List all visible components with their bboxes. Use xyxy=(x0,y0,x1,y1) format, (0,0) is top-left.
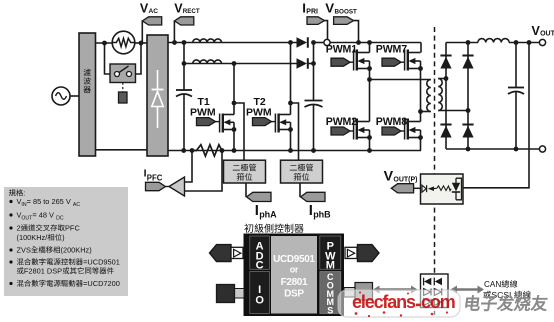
svg-text:PFC: PFC xyxy=(65,224,80,233)
MOSFET M7 (PWM7) xyxy=(405,43,423,71)
transformer primary winding xyxy=(427,80,431,112)
svg-text:phB: phB xyxy=(313,209,331,219)
wire filter to thermistor node xyxy=(96,42,114,44)
I_PFC label xyxy=(144,167,163,182)
IO connector stub xyxy=(235,289,245,299)
PWM8 label xyxy=(376,116,407,128)
ADC connector box xyxy=(231,247,243,258)
I_PRI tag xyxy=(307,17,325,25)
PFC inductor L2 xyxy=(193,60,222,64)
wire filter to bridge bottom xyxy=(96,149,148,151)
MOSFET T1 xyxy=(220,114,237,133)
M2 gate tag xyxy=(331,127,354,135)
MOSFET M2 (PWM2) xyxy=(354,119,372,140)
junction M1 drain xyxy=(367,40,372,45)
PWM output arrow xyxy=(358,245,380,262)
bridge rectifier BR1 xyxy=(147,35,168,156)
op-amp U2 xyxy=(169,177,185,196)
COMMS connector stub xyxy=(344,288,355,298)
T1 label xyxy=(190,96,216,119)
I_PRI node circle xyxy=(324,39,330,45)
svg-text:OUT: OUT xyxy=(540,31,554,38)
svg-text:S: S xyxy=(327,305,333,315)
I_phB label xyxy=(309,203,331,219)
wire source to filter xyxy=(70,95,79,97)
svg-text:PWM2: PWM2 xyxy=(326,116,357,128)
V_OUT terminal - xyxy=(539,146,545,152)
I_PRI label xyxy=(302,1,318,16)
T1 clamp feed wire xyxy=(234,103,244,161)
T2 drain wire xyxy=(288,40,293,114)
M8 gate tag xyxy=(382,127,405,135)
wire D2 to bus xyxy=(308,63,314,65)
IO block xyxy=(250,272,270,314)
PWM1 label xyxy=(326,44,357,56)
M1-M2 node wire xyxy=(367,69,372,122)
svg-text:C: C xyxy=(256,260,264,272)
V_RECT label xyxy=(174,1,200,15)
V_OUT label xyxy=(532,24,554,38)
T1 drain wire xyxy=(232,61,237,114)
rectifier right leg wire xyxy=(466,40,471,151)
COMMS connector box xyxy=(355,283,373,301)
output capacitor C3 xyxy=(508,43,524,150)
controller block U1 xyxy=(244,234,345,317)
svg-text:F2801: F2801 xyxy=(281,277,308,288)
svg-text:PWM: PWM xyxy=(190,107,216,119)
junction Rs left xyxy=(190,148,195,153)
svg-text:PRI: PRI xyxy=(306,8,318,15)
boost diode D2 xyxy=(297,58,308,69)
svg-text:phA: phA xyxy=(259,209,277,219)
svg-text:PWM8: PWM8 xyxy=(376,116,407,128)
CAN opto box U4 xyxy=(421,274,449,308)
relay actuation dashed link xyxy=(122,83,124,93)
svg-text:M: M xyxy=(326,260,335,272)
svg-text:DC: DC xyxy=(56,216,64,222)
feedback opto box U3 xyxy=(421,174,464,204)
inrush thermistor RT1 xyxy=(112,31,135,54)
transformer secondary winding xyxy=(438,79,442,111)
rectifier diode D6 xyxy=(462,125,473,138)
rectifier left leg wire xyxy=(445,43,447,150)
primary side controller label (初級側控制器) xyxy=(244,224,303,233)
svg-text:RECT: RECT xyxy=(183,8,200,15)
secondary bottom wire xyxy=(438,108,470,113)
svg-text:com: com xyxy=(421,292,455,312)
relay wire right xyxy=(136,43,142,74)
rectifier diode D3 xyxy=(440,56,451,69)
svg-text:BOOST: BOOST xyxy=(335,8,358,15)
junction Rs right xyxy=(220,148,225,153)
CAN bus label xyxy=(484,280,517,289)
V_OUT(P) tag xyxy=(391,184,420,193)
wire thermistor to bridge xyxy=(135,42,147,44)
T1 gate PWM tag xyxy=(197,118,220,126)
svg-text:PWM: PWM xyxy=(246,107,272,119)
ADC input arrow xyxy=(210,245,232,262)
MOSFET M1 (PWM1) xyxy=(354,43,372,71)
junction C1 bottom xyxy=(181,148,186,153)
clamp2 output wire xyxy=(299,183,301,197)
svg-text:= 48 V: = 48 V xyxy=(32,211,54,220)
wire bus to Ipri node xyxy=(314,42,325,44)
T2 gate PWM tag xyxy=(253,118,276,126)
V_BOOST label xyxy=(325,1,357,16)
CAN opto row3 diodes xyxy=(424,299,442,306)
MOSFET M8 (PWM8) xyxy=(405,119,423,140)
rectifier diode D4 xyxy=(462,56,473,69)
svg-text:=UCD9501: =UCD9501 xyxy=(83,258,120,267)
svg-text:OUT(P): OUT(P) xyxy=(393,176,417,183)
svg-text:V: V xyxy=(325,1,334,16)
M7 gate tag xyxy=(382,58,405,66)
output inductor L3 xyxy=(478,39,509,43)
boost rail xyxy=(330,42,421,44)
svg-text:elecfans: elecfans xyxy=(352,292,416,312)
output top rail xyxy=(446,42,540,44)
I_phB tag xyxy=(301,192,326,201)
relay wire left xyxy=(105,43,111,74)
M2 source wire xyxy=(367,138,372,153)
I_phA label xyxy=(255,203,277,219)
svg-text:=UCD7200: =UCD7200 xyxy=(83,279,120,288)
junction L2 branch xyxy=(182,61,187,66)
M7-M8 node wire xyxy=(418,69,423,122)
DSP block UCD9501/F2801 xyxy=(271,236,317,314)
svg-text:DSP: DSP xyxy=(284,289,304,300)
svg-text:UCD9501: UCD9501 xyxy=(273,254,315,265)
watermark background xyxy=(338,290,460,317)
bulk capacitor C1 xyxy=(176,64,192,151)
output bottom rail xyxy=(446,147,540,152)
PFC inductor L1 xyxy=(193,39,222,43)
PWM block xyxy=(320,236,341,272)
T2 label xyxy=(246,96,272,119)
svg-text:O: O xyxy=(255,294,264,306)
boost diode D1 xyxy=(297,37,308,48)
CAN opto row1 diodes xyxy=(424,278,442,286)
V_AC label xyxy=(140,1,158,15)
MOSFET T2 xyxy=(275,114,293,133)
I_phA tag xyxy=(247,192,272,201)
COMMS block xyxy=(320,272,341,316)
V_AC tag xyxy=(142,17,161,43)
junction C3 top xyxy=(514,40,519,45)
isolation dashed line xyxy=(434,27,436,315)
PWM connector box xyxy=(345,247,357,258)
secondary top wire xyxy=(438,76,448,81)
V_BOOST tag xyxy=(334,17,354,25)
current sense resistor R_s xyxy=(192,145,222,156)
op-amp input wire + xyxy=(185,151,193,183)
svg-text:F2801 DSP: F2801 DSP xyxy=(24,267,62,276)
primary node wire xyxy=(370,79,431,81)
relay coil box xyxy=(119,92,128,103)
EMI filter box (濾波器) xyxy=(79,33,96,156)
AC source V1 xyxy=(52,87,70,105)
diode clamp box 1 (二極管箝位) xyxy=(224,160,266,183)
svg-text:or: or xyxy=(290,265,299,275)
boost capacitor C2 xyxy=(305,101,323,153)
T2 clamp feed wire xyxy=(291,103,299,161)
svg-text:AC: AC xyxy=(149,8,159,15)
svg-text:PWM7: PWM7 xyxy=(376,44,407,56)
svg-text:): ) xyxy=(62,233,64,242)
watermark elecfans.com xyxy=(352,292,455,318)
zener diode Z1 xyxy=(452,178,462,200)
CAN opto row2 diodes xyxy=(424,289,442,296)
D1 D2 cathode bus xyxy=(311,40,316,100)
primary bottom wire xyxy=(421,111,431,113)
bottom primary rail xyxy=(168,150,421,152)
M1 gate tag xyxy=(331,58,354,66)
ADC block xyxy=(250,236,270,272)
svg-text:= 85 to 265 V: = 85 to 265 V xyxy=(27,197,71,206)
svg-text:2: 2 xyxy=(17,224,21,233)
node B junction xyxy=(139,41,144,46)
clamp1 output wire xyxy=(245,183,247,197)
rectifier diode D5 xyxy=(440,125,451,138)
V_RECT tag xyxy=(174,17,193,43)
svg-text:PWM1: PWM1 xyxy=(326,44,357,56)
V_OUT(P) label xyxy=(384,168,418,184)
svg-text:(100KHz/: (100KHz/ xyxy=(17,233,49,242)
PWM2 label xyxy=(326,116,357,128)
V_RECT rail xyxy=(168,42,297,44)
svg-text:PFC: PFC xyxy=(147,174,163,183)
opto to CAN bus arrow xyxy=(451,286,485,294)
T2 source wire xyxy=(288,130,293,153)
I_PRI current point xyxy=(325,21,328,40)
opto resistor xyxy=(437,186,451,191)
opto arrow xyxy=(428,186,437,191)
I_PFC tag xyxy=(146,182,170,190)
branch to lower rail xyxy=(183,43,185,64)
svg-text::: : xyxy=(23,189,25,198)
M8 source wire xyxy=(420,138,422,151)
svg-text:CAN: CAN xyxy=(484,280,501,289)
watermark 电子发烧友 xyxy=(465,295,548,311)
opto LED symbol xyxy=(422,185,427,192)
node A junction xyxy=(102,41,107,46)
svg-text:AC: AC xyxy=(73,202,80,208)
SCSI bus label xyxy=(483,290,530,300)
diode clamp box 2 (二極管箝位) xyxy=(281,160,323,183)
COMMS to opto arrow xyxy=(373,286,418,294)
junction V_RECT xyxy=(172,40,177,45)
lower PFC rail xyxy=(184,63,297,65)
specifications box xyxy=(4,187,128,296)
junction V_BOOST xyxy=(356,40,361,45)
T1 source wire xyxy=(232,130,237,153)
junction T2 clamp tap xyxy=(288,101,293,106)
V_OUT terminal + xyxy=(539,39,545,45)
V_BOOST wire xyxy=(354,21,359,43)
junction rail1 to rail2 branch xyxy=(182,40,187,45)
svg-text:V: V xyxy=(384,168,394,184)
svg-text:ZVS: ZVS xyxy=(17,246,31,255)
junction T1 clamp tap xyxy=(232,101,237,106)
opto output wire xyxy=(463,40,531,188)
relay K1 xyxy=(110,64,136,83)
svg-text:(200KHz): (200KHz) xyxy=(61,246,92,255)
IO connector box xyxy=(217,285,235,303)
PWM7 label xyxy=(376,44,407,56)
op-amp input wire - xyxy=(185,151,223,192)
